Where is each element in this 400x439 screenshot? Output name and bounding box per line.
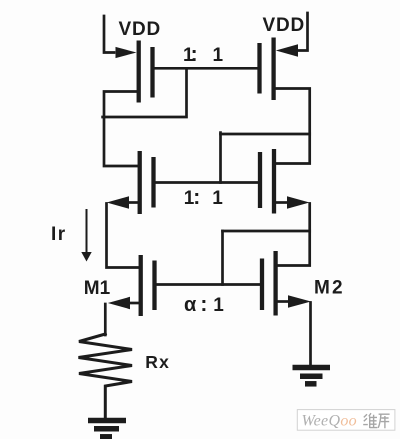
svg-text:M2: M2 <box>314 278 345 299</box>
svg-text:VDD: VDD <box>263 15 306 36</box>
svg-text::: : <box>191 43 198 66</box>
svg-text:1: 1 <box>212 188 223 209</box>
svg-text::: : <box>193 186 200 209</box>
svg-text::: : <box>200 293 207 316</box>
svg-text:Rx: Rx <box>145 352 170 372</box>
svg-text:VDD: VDD <box>119 19 162 40</box>
svg-text:α: α <box>184 294 197 316</box>
svg-text:Ir: Ir <box>51 224 67 245</box>
svg-text:M1: M1 <box>84 278 111 299</box>
svg-text:1: 1 <box>213 295 224 316</box>
svg-text:1: 1 <box>213 45 224 66</box>
svg-text:WeeQoo: WeeQoo <box>302 413 357 430</box>
